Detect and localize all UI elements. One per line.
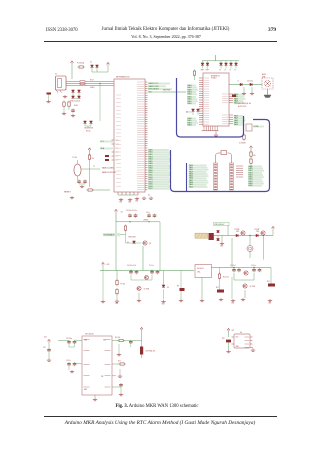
svg-text:C9 100n C10: C9 100n C10 xyxy=(127,265,136,267)
svg-text:C24 1u: C24 1u xyxy=(66,360,71,362)
svg-text:C13 4u7: C13 4u7 xyxy=(230,265,236,267)
svg-text:SAMD21-RX: SAMD21-RX xyxy=(148,85,159,88)
svg-text:GND: GND xyxy=(162,304,165,306)
svg-text:PA04: PA04 xyxy=(187,93,191,96)
svg-text:R11: R11 xyxy=(267,281,270,283)
svg-text:I2C: I2C xyxy=(148,194,150,196)
svg-text:R7 10k: R7 10k xyxy=(121,284,126,286)
svg-text:1M: 1M xyxy=(92,158,95,160)
svg-text:PB22 PB23: PB22 PB23 xyxy=(163,90,170,92)
svg-text:GND: GND xyxy=(135,201,138,203)
svg-text:GND: GND xyxy=(115,303,118,305)
svg-text:PA10: PA10 xyxy=(189,185,193,188)
svg-text:VBUS-SENSE: VBUS-SENSE xyxy=(84,128,93,130)
svg-text:X1: X1 xyxy=(55,74,57,76)
svg-text:GND: GND xyxy=(220,246,223,248)
svg-text:R3 27: R3 27 xyxy=(90,80,94,82)
svg-text:R15: R15 xyxy=(222,338,225,340)
svg-text:U4 BQ24: U4 BQ24 xyxy=(197,268,204,270)
svg-text:TX: TX xyxy=(224,70,226,72)
svg-text:+5V: +5V xyxy=(120,212,123,214)
svg-text:Q1 FDN: Q1 FDN xyxy=(144,289,150,291)
svg-text:C23 100n: C23 100n xyxy=(66,338,72,340)
svg-text:LP2985: LP2985 xyxy=(143,220,148,222)
svg-text:U6: U6 xyxy=(240,332,242,334)
svg-text:GND: GND xyxy=(231,303,234,305)
svg-text:GND: GND xyxy=(128,202,131,204)
svg-text:CRYSTAL 32K: CRYSTAL 32K xyxy=(146,350,156,353)
svg-text:U8 DS3231: U8 DS3231 xyxy=(85,334,94,336)
svg-text:VDD: VDD xyxy=(84,339,87,341)
svg-text:32.768kHz: 32.768kHz xyxy=(239,143,246,145)
svg-text:VIN-USB-5V: VIN-USB-5V xyxy=(214,224,225,226)
svg-text:MP2322GQH 1A: MP2322GQH 1A xyxy=(238,102,252,105)
svg-text:R10 10k: R10 10k xyxy=(223,277,229,279)
svg-text:SAMD21-XIN32: SAMD21-XIN32 xyxy=(102,167,114,170)
svg-text:C4 100n C5 10u: C4 100n C5 10u xyxy=(126,210,137,212)
svg-text:ANT1: ANT1 xyxy=(262,73,266,76)
svg-text:PA09: PA09 xyxy=(248,184,252,187)
svg-text:R12: R12 xyxy=(216,287,219,289)
svg-text:R14: R14 xyxy=(118,361,121,363)
svg-text:USB-N: USB-N xyxy=(90,87,94,89)
svg-text:GND: GND xyxy=(268,303,271,305)
svg-text:TPS22918: TPS22918 xyxy=(128,237,136,239)
svg-text:D4: D4 xyxy=(167,287,169,289)
svg-text:PA17: PA17 xyxy=(148,187,152,190)
svg-text:PA04: PA04 xyxy=(234,123,238,126)
svg-text:C11 1u: C11 1u xyxy=(149,265,154,267)
svg-text:D5: D5 xyxy=(127,242,129,244)
svg-text:VCC: VCC xyxy=(236,337,239,339)
svg-text:PWR: PWR xyxy=(206,70,209,72)
svg-text:T2 DMP: T2 DMP xyxy=(234,229,240,231)
svg-text:MKRWAN1300: MKRWAN1300 xyxy=(116,76,130,79)
svg-text:T3 DMP: T3 DMP xyxy=(254,229,260,231)
svg-text:PA03: PA03 xyxy=(187,102,191,105)
svg-text:VCC: VCC xyxy=(103,339,106,341)
svg-text:C22: C22 xyxy=(43,347,46,349)
svg-text:Q3: Q3 xyxy=(149,243,151,245)
svg-text:F1 500mA: F1 500mA xyxy=(77,62,84,65)
svg-text:C30 56p: C30 56p xyxy=(247,81,253,83)
svg-text:PA03: PA03 xyxy=(187,123,191,126)
svg-text:MKR-RESET: MKR-RESET xyxy=(148,89,159,91)
svg-text:GND: GND xyxy=(236,346,239,348)
svg-text:3V3: 3V3 xyxy=(44,337,47,339)
svg-text:SCL: SCL xyxy=(100,141,104,143)
svg-text:10k: 10k xyxy=(253,155,256,157)
svg-text:USBLC6-2SC6: USBLC6-2SC6 xyxy=(70,101,80,103)
svg-text:C14 1u: C14 1u xyxy=(251,265,256,267)
svg-text:R4 R5: R4 R5 xyxy=(74,105,78,107)
svg-text:TX: TX xyxy=(219,70,221,72)
svg-text:GND: GND xyxy=(119,202,122,204)
svg-text:TX: TX xyxy=(229,70,231,72)
svg-text:+3V3: +3V3 xyxy=(106,264,110,266)
svg-text:3V3-ENABLE: 3V3-ENABLE xyxy=(103,234,115,237)
svg-text:GND: GND xyxy=(84,389,87,391)
svg-text:2305: 2305 xyxy=(236,231,239,233)
svg-text:SAMD21-TX: SAMD21-TX xyxy=(148,82,159,85)
svg-text:TX: TX xyxy=(234,70,236,72)
svg-text:BUCK 3V3: BUCK 3V3 xyxy=(238,106,246,108)
svg-text:195L: 195L xyxy=(197,272,201,274)
svg-text:PWR: PWR xyxy=(201,70,204,72)
svg-text:Q2 FDN: Q2 FDN xyxy=(250,286,256,288)
svg-text:Y1 32k: Y1 32k xyxy=(72,157,77,159)
svg-text:RESET: RESET xyxy=(64,192,71,194)
svg-text:R9: R9 xyxy=(177,286,179,288)
svg-text:LORA: LORA xyxy=(253,125,259,128)
svg-text:ATSAMD21: ATSAMD21 xyxy=(211,75,220,78)
svg-text:D1: D1 xyxy=(90,62,92,64)
svg-text:3V3: 3V3 xyxy=(232,330,235,332)
svg-text:R6 10k: R6 10k xyxy=(86,130,91,132)
svg-text:R13 10k: R13 10k xyxy=(115,337,120,339)
svg-text:L1: L1 xyxy=(237,81,239,83)
svg-text:2305: 2305 xyxy=(256,231,259,233)
svg-text:32K: 32K xyxy=(101,376,104,378)
svg-text:C6 1u: C6 1u xyxy=(146,212,150,214)
svg-text:SAMD21-XOUT32: SAMD21-XOUT32 xyxy=(102,171,116,174)
